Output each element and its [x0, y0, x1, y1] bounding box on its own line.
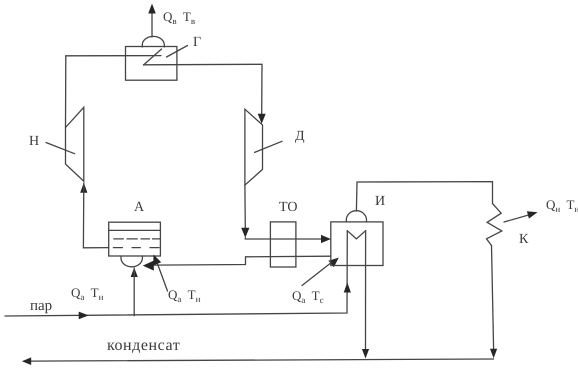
arrow up into compressor bottom [80, 183, 87, 193]
absorber U3 (А) box [109, 222, 161, 256]
wire: expander outlet down to TO line [244, 185, 246, 229]
svg-text:А: А [134, 200, 145, 215]
arrow left into absorber bump [143, 261, 154, 271]
wire: left riser from compressor top to generator [65, 56, 67, 128]
svg-text:Qа Тн: Qа Тн [71, 285, 104, 302]
evaporator dome [346, 211, 366, 222]
heater break slash in generator [144, 49, 162, 65]
label Qа Тн middle [168, 287, 201, 304]
heat exchanger U2 (ТО) box [270, 222, 296, 267]
wire: lower return stream from evaporator to absorber [154, 256, 331, 265]
wire: generator to expander (right, then down) [144, 64, 263, 115]
arrow down into expander Д [258, 114, 266, 124]
svg-text:ТО: ТО [279, 200, 297, 215]
wire: steam main line пар [5, 231, 347, 316]
arrow down onto condensate line from coil [362, 349, 369, 359]
svg-text:пар: пар [30, 298, 52, 314]
generator U1 (Г) box [126, 47, 177, 81]
absorber bottom dome [121, 256, 142, 267]
label Qн Тн [546, 197, 578, 214]
wire: condenser down to condensate line [492, 246, 494, 350]
evaporator U4 (И) box [331, 222, 383, 266]
wire: evaporator top to condenser [356, 182, 492, 211]
expander Q2 (Д) trapezoid [245, 109, 263, 185]
arrow up to Qв Тв [148, 4, 156, 14]
label arrow Qа Тс into evaporator corner [302, 258, 339, 286]
arrow up into absorber dome [131, 268, 138, 278]
wire: absorber to compressor (up left leg) [83, 183, 108, 248]
wire: condensate drop from evaporator coil [365, 231, 367, 350]
label Qв Тв [163, 9, 195, 26]
wire: upper stream through heat exchanger to evaporator [245, 238, 321, 239]
label Qа Тн left [71, 285, 104, 302]
label tick Д [255, 141, 282, 152]
label конденсат [107, 337, 180, 354]
generator Г dome [142, 36, 164, 47]
svg-text:Qа Тс: Qа Тс [292, 288, 324, 305]
label А [134, 200, 145, 215]
svg-text:Qв Тв: Qв Тв [163, 9, 195, 26]
label К [519, 232, 529, 247]
svg-text:Qа Тн: Qа Тн [168, 287, 201, 304]
label Qа Тс [292, 288, 324, 305]
svg-text:К: К [519, 232, 529, 247]
steam coil M inside evaporator [347, 231, 365, 239]
arrow down on expander outlet [241, 228, 249, 238]
arrow right on steam line [79, 312, 89, 320]
wire: condensate main line [31, 359, 494, 361]
label Г [193, 35, 201, 50]
arrow up on steam riser into evaporator coil [344, 283, 351, 293]
svg-text:конденсат: конденсат [107, 337, 180, 354]
svg-text:Н: Н [29, 134, 39, 149]
compressor Q1 (Н) trapezoid [66, 107, 84, 181]
label tick Г [167, 46, 188, 58]
arrow right into evaporator [321, 235, 331, 243]
wire: output vapor line from generator top [151, 13, 153, 37]
condenser R1 (К) zigzag [487, 204, 502, 246]
label tick Н [46, 143, 75, 154]
wire: heating line into generator (upper) [66, 55, 161, 57]
absorber liquid level line [109, 229, 161, 231]
wire: steam branch up to absorber [133, 268, 135, 316]
label ТО [279, 200, 297, 215]
label Д [295, 129, 305, 144]
label arrow Qа Тн into absorber [153, 255, 167, 292]
arrow down onto condensate line from condenser [490, 349, 497, 359]
arrow left on condensate line [22, 357, 31, 365]
label И [375, 194, 385, 209]
absorber dash row 2 [113, 247, 159, 249]
svg-text:Г: Г [193, 35, 201, 50]
svg-text:И: И [375, 194, 385, 209]
label Н [29, 134, 39, 149]
absorber dash row 1 [114, 238, 161, 240]
svg-text:Qн Тн: Qн Тн [546, 197, 578, 214]
svg-text:Д: Д [295, 129, 305, 144]
label пар [30, 298, 52, 314]
label arrow Qн Тн from condenser [504, 211, 538, 222]
